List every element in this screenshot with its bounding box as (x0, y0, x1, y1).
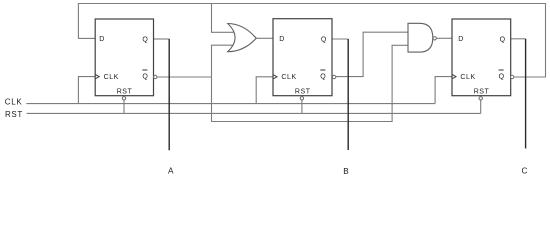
pin: U3 clock triangle (452, 75, 456, 79)
svg-text:Q: Q (499, 74, 505, 81)
wire: RST branch to FF2 (301, 100, 303, 113)
flip-flop U2 (D flip-flop) (273, 19, 336, 100)
svg-text:Q: Q (142, 37, 148, 44)
svg-text:D: D (279, 36, 284, 43)
svg-text:A: A (168, 167, 174, 176)
pin: U2 clock triangle (273, 75, 277, 79)
flip-flop U3 (D flip-flop) (452, 19, 514, 100)
wire: FF1 Qbar net to OR input B and NAND input B (157, 45, 409, 121)
svg-text:CLK: CLK (104, 74, 119, 81)
svg-text:D: D (458, 36, 463, 43)
pin: U2 RST bubble (300, 97, 303, 100)
pin: U1 Qbar bubble (154, 75, 157, 78)
wire: FF3 Q to node C (511, 38, 526, 40)
svg-text:CLK: CLK (460, 74, 475, 81)
svg-text:RST: RST (474, 88, 490, 95)
svg-text:RST: RST (117, 88, 133, 95)
wire: FF1 Q to node A (154, 38, 170, 40)
pin: U1 clock triangle (95, 75, 99, 79)
svg-text:Q: Q (500, 37, 506, 44)
or-gate G1 (228, 24, 256, 52)
nand-gate G2 (408, 23, 436, 52)
svg-text:Q: Q (142, 74, 148, 81)
pin: U3 RST bubble (479, 97, 482, 100)
svg-text:Q: Q (321, 37, 327, 44)
pin: G2 output bubble (433, 37, 436, 40)
pin: U2 Qbar bubble (332, 75, 335, 78)
pin: U3 Qbar bubble (511, 75, 514, 78)
svg-text:CLK: CLK (5, 98, 23, 107)
svg-text:Q: Q (320, 74, 326, 81)
wire: FF2 Q to node B (332, 38, 348, 40)
wire: NAND output to FF3 D (436, 37, 452, 39)
wire: FF2 Qbar to NAND input A (336, 32, 409, 76)
svg-text:RST: RST (5, 110, 23, 119)
svg-text:C: C (522, 166, 528, 175)
pin: U1 RST bubble (122, 97, 125, 100)
wire: CLK branch to FF1 (78, 77, 95, 104)
svg-text:D: D (99, 36, 104, 43)
svg-text:CLK: CLK (281, 74, 296, 81)
svg-text:RST: RST (295, 88, 311, 95)
wire: OR output to FF2 D (256, 37, 273, 39)
svg-text:B: B (343, 167, 349, 176)
wire: RST branch to FF3 (480, 100, 482, 113)
wire: RST branch to FF1 (123, 100, 125, 113)
wire: CLK branch to FF2 (256, 77, 273, 104)
flip-flop U1 (D flip-flop) (95, 19, 157, 100)
wire: CLK branch to FF3 (435, 77, 452, 104)
wire: feedback net from FF3 Qbar along top to FF1 D and OR input A (78, 4, 545, 78)
